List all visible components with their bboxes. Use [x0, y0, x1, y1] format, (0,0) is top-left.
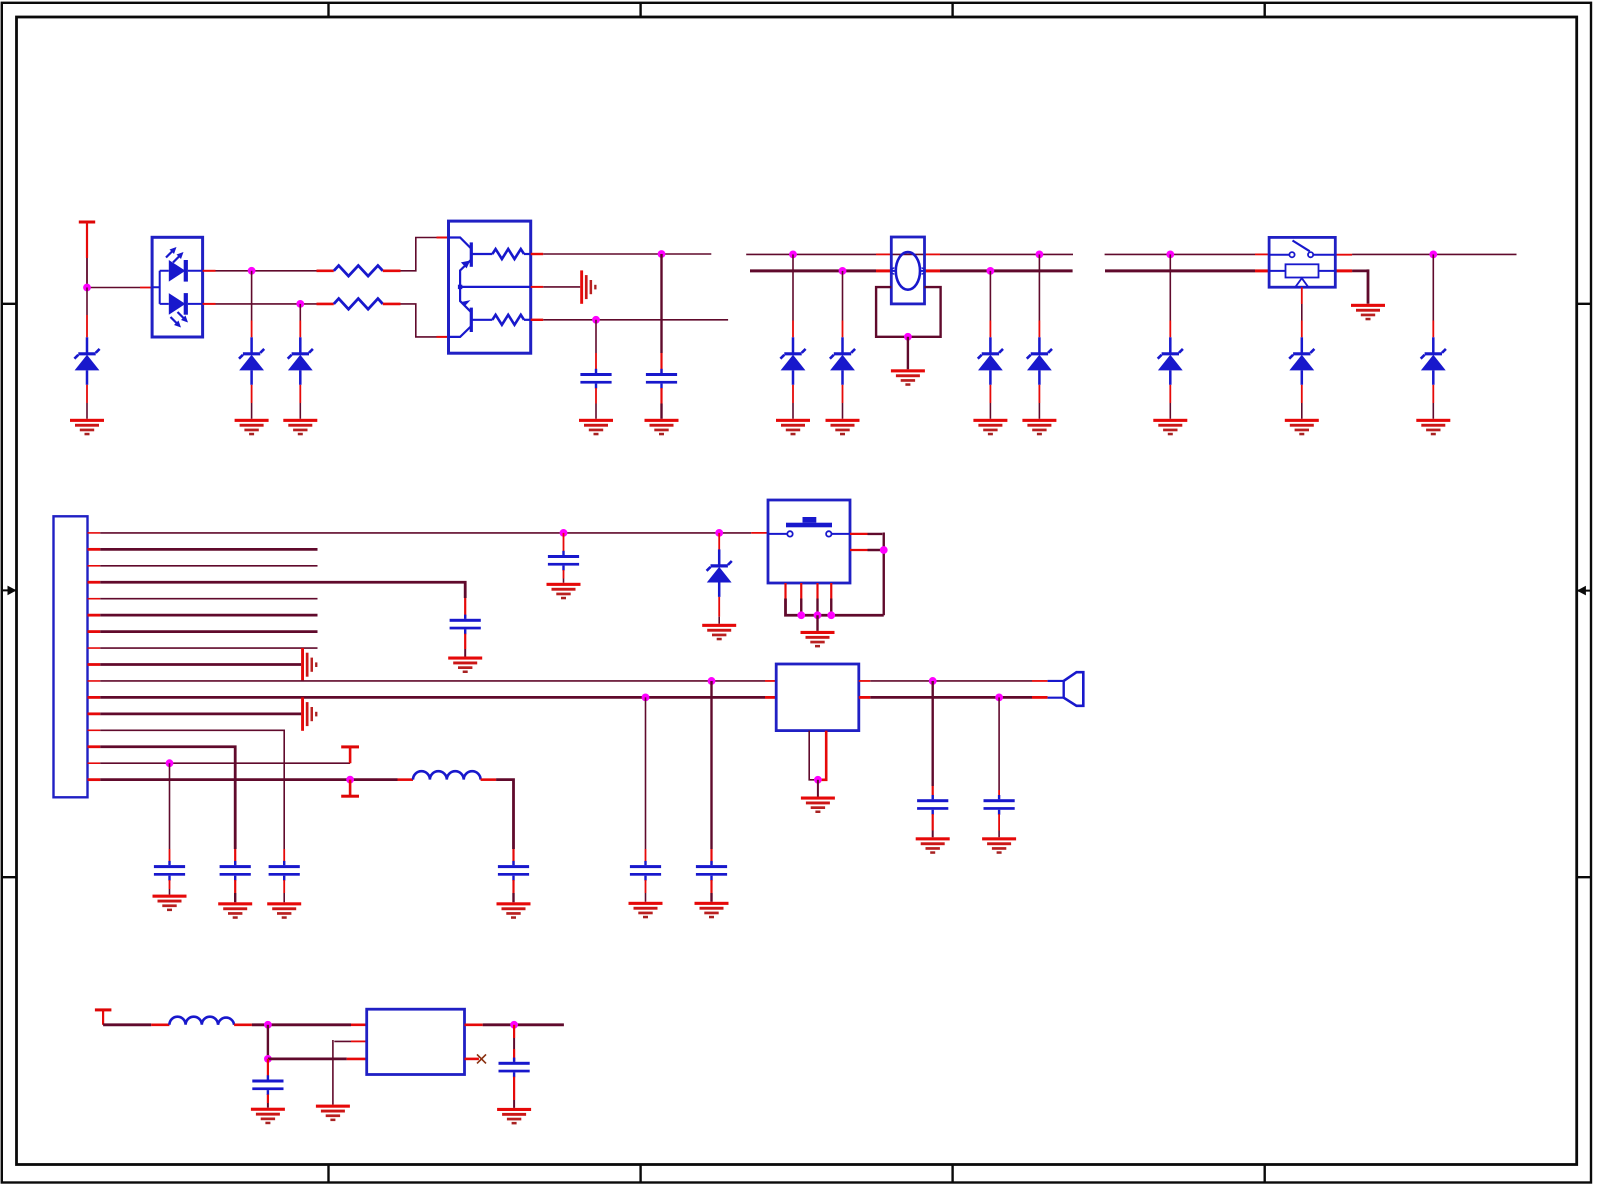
capacitor C9: [917, 681, 948, 837]
wire pin stub F1 left top: [876, 253, 891, 255]
node junction N3: [510, 1021, 518, 1029]
ground G14: [1285, 419, 1319, 436]
wire L1 left lead: [398, 778, 414, 781]
node junction M2: [715, 529, 723, 537]
wire pin stub U2 left bottom: [765, 696, 776, 699]
connector J1: [54, 516, 88, 797]
wire net LB: [216, 303, 317, 305]
wire net BUS2A right: [1352, 253, 1516, 255]
node junction B5: [904, 333, 912, 341]
wire net IN to opto: [87, 287, 152, 289]
ground G7: [891, 369, 925, 386]
wire pin stub S1 left: [1255, 269, 1269, 272]
ground G1: [70, 419, 104, 436]
ground G5: [579, 419, 613, 436]
diode D3 (TVS): [288, 304, 313, 419]
wire N1 to N2: [267, 1025, 269, 1059]
node junction M1: [560, 529, 568, 537]
wire pin stub SW1 left: [751, 532, 768, 534]
IC U3: [367, 1009, 465, 1074]
wire emitter to ground: [543, 286, 580, 288]
wire net P2 (row2): [100, 548, 317, 551]
diode D7 (TVS): [1027, 254, 1052, 418]
wire net LA: [216, 270, 317, 272]
ground G4 (rotated): [580, 270, 596, 303]
capacitor C7: [498, 849, 529, 902]
wire pin stub U2 right bottom: [859, 696, 871, 699]
wire SW1 right pin B: [850, 549, 884, 551]
wire net OUTA: [543, 253, 711, 255]
wire net P14 (row14): [100, 745, 235, 849]
node junction M9: [827, 611, 835, 619]
wire across F1: [891, 253, 924, 255]
wire loop to ground: [907, 337, 909, 370]
ground G23: [547, 583, 581, 600]
wire pin stub F1 right top: [925, 253, 941, 255]
ground G9: [826, 419, 860, 436]
wire pin stub S1 left top: [1255, 253, 1269, 255]
wire net P12 (row12): [100, 712, 301, 715]
wire net P10 (row10): [100, 680, 765, 682]
wire S1 to ground: [1352, 269, 1368, 303]
inductor L2: [169, 1017, 234, 1025]
wire J1 pin 4 stub: [88, 581, 101, 584]
ground G10: [973, 419, 1007, 436]
wire net BUS2B: [1105, 269, 1255, 272]
wire rail to ground: [816, 615, 818, 631]
ground G27: [916, 837, 950, 854]
wire J1 pin 5 stub: [88, 598, 101, 600]
power port VCC2: [341, 745, 359, 763]
wire Q1 emitter pin: [531, 286, 544, 288]
wire J1 pin 2 stub: [88, 548, 101, 551]
wire J1 pin 10 stub: [88, 680, 101, 682]
resistor R2: [317, 299, 401, 310]
wire U3 output pin: [465, 1024, 564, 1027]
wire SW1 right pin A: [850, 533, 884, 616]
diode D1 (TVS): [74, 288, 99, 419]
ground G28: [982, 837, 1016, 854]
wire J1 pin 1 stub: [88, 532, 101, 534]
wire net P1 (row1): [100, 532, 751, 534]
wire net BUS1A: [746, 253, 876, 255]
capacitor C1: [580, 320, 611, 419]
ground G32: [316, 1105, 350, 1122]
diode D5 (TVS): [830, 271, 855, 419]
wire U2 to ground: [817, 780, 819, 797]
capacitor C2: [646, 254, 677, 419]
node junction M13: [814, 776, 822, 784]
wire net BUS1A right: [940, 253, 1073, 255]
node junction B6: [1166, 251, 1174, 259]
node junction A3: [296, 300, 304, 308]
wire opto pin3: [203, 270, 216, 272]
wire J1 pin 3 stub: [88, 565, 101, 567]
node junction B3: [839, 267, 847, 275]
wire pin stub F1 right: [925, 269, 941, 272]
capacitor C4: [269, 849, 300, 902]
wire net P6 (row6): [100, 614, 317, 617]
node junction M10: [880, 546, 888, 554]
node junction B2: [1036, 251, 1044, 259]
ground G15: [1416, 419, 1450, 436]
wire net P13 (row13): [100, 730, 284, 850]
wire L2 to U3: [234, 1024, 367, 1027]
wire net P4 (row4): [100, 581, 465, 598]
wire U3 middle pin to ground: [333, 1040, 367, 1105]
IC U2: [776, 664, 859, 731]
thermal switch S1: [1269, 237, 1335, 287]
ground G21: [153, 895, 187, 912]
optocoupler U1: [152, 237, 203, 337]
left sheet arrow: [8, 586, 17, 596]
ground G8: [776, 419, 810, 436]
wire SPKA red lead: [1032, 680, 1048, 682]
wire L1 to C7: [496, 778, 513, 849]
wire net P8 (row8): [100, 647, 317, 649]
wire U2 bottom pin right: [818, 731, 826, 780]
ground G3: [283, 419, 317, 436]
wire pin stub F1 left: [876, 269, 891, 272]
power port VCC3 (down): [341, 780, 359, 798]
wire net P11 (row11): [100, 696, 765, 699]
wire VCC4 to L2: [103, 1023, 169, 1026]
ground G11: [1022, 419, 1056, 436]
node junction M3: [708, 677, 716, 685]
transistor pair Q1: [449, 221, 531, 353]
wire U3 NC pin: [465, 1058, 479, 1061]
diode D6 (TVS): [978, 271, 1003, 419]
ground G31: [251, 1108, 285, 1125]
wire J1 pin 13 stub: [88, 729, 101, 731]
capacitor C11: [630, 697, 661, 901]
wire net BUS1B: [750, 269, 876, 272]
node junction M11: [929, 677, 937, 685]
capacitor C8: [548, 533, 579, 583]
wire net P3 (row3): [100, 565, 317, 567]
wire opto pin4: [203, 303, 216, 305]
capacitor C5: [220, 849, 251, 902]
wire net OUTB: [543, 319, 728, 321]
ground G20: [218, 902, 252, 919]
wire J1 pin 9 stub: [88, 663, 101, 666]
diode D11 (TVS): [707, 533, 732, 624]
ground G29: [629, 902, 663, 919]
node junction M5: [166, 759, 174, 767]
wire net BUS1B right: [940, 269, 1073, 272]
node junction M8: [814, 611, 822, 619]
fuse F1: [891, 237, 924, 304]
node junction B7: [1429, 251, 1437, 259]
power port VCC4: [95, 1008, 112, 1024]
wire R1 to Q1: [401, 237, 449, 272]
node junction N2: [264, 1055, 272, 1063]
wire R2 to Q1: [401, 303, 449, 338]
no-connect X mark: [477, 1054, 486, 1063]
wire L1 right lead: [481, 778, 497, 781]
node junction M7: [797, 611, 805, 619]
wire SW1 pin stubs bottom: [786, 583, 832, 599]
wire net BUS2A: [1105, 253, 1255, 255]
node junction B1: [789, 251, 797, 259]
speaker LS1: [1048, 672, 1084, 706]
node junction A1: [83, 284, 91, 292]
wire net SPKB: [870, 696, 1032, 699]
wire U2 bottom pin left: [809, 731, 818, 780]
node junction N1: [264, 1021, 272, 1029]
ground G30: [695, 902, 729, 919]
ground G26: [801, 797, 835, 814]
capacitor C3: [450, 598, 481, 657]
wire net P5 (row5): [100, 598, 317, 600]
capacitor C13: [252, 1059, 283, 1108]
ground G6: [645, 419, 679, 436]
wire net SPKA: [870, 680, 1032, 682]
wire Q1 pin out top: [531, 253, 544, 255]
inductor L1: [413, 771, 481, 779]
wire net P7 (row7): [100, 630, 317, 633]
wire F1 bypass loop: [876, 287, 941, 337]
wire Q1 pin out bottom: [531, 319, 544, 321]
ground G19: [267, 902, 301, 919]
wire net P9 (row9): [100, 663, 301, 666]
ground G16: [448, 657, 482, 674]
wire pin stub U2 left top: [765, 680, 776, 682]
wire J1 pin 6 stub: [88, 614, 101, 617]
wire J1 pin 12 stub: [88, 712, 101, 715]
ground G13: [1153, 419, 1187, 436]
node junction M6: [346, 776, 354, 784]
wire J1 pin 7 stub: [88, 630, 101, 633]
node junction M12: [995, 694, 1003, 702]
node junction A4: [658, 250, 666, 258]
diode D4 (TVS): [780, 254, 805, 418]
ground G2: [235, 419, 269, 436]
diode D10 (TVS): [1421, 254, 1446, 418]
diode D2 (TVS): [239, 271, 264, 419]
wire J1 pin 16 stub: [88, 778, 101, 781]
wire J1 pin 11 stub: [88, 696, 101, 699]
wire pin stub U2 right top: [859, 680, 871, 682]
node junction B4: [987, 267, 995, 275]
power port VCC1: [79, 221, 95, 288]
wire J1 pin 8 stub: [88, 647, 101, 649]
ground G12: [1351, 304, 1385, 321]
capacitor C10: [984, 697, 1015, 837]
capacitor C12: [696, 681, 727, 902]
ground G24: [702, 624, 736, 641]
resistor R1: [317, 266, 401, 277]
wire SPKB red lead: [1032, 696, 1048, 699]
wire J1 pin 14 stub: [88, 745, 101, 748]
capacitor C6: [154, 763, 185, 894]
node junction A2: [248, 267, 256, 275]
wire net P15 (row15): [100, 762, 350, 764]
ground G33: [497, 1108, 531, 1125]
pushbutton SW1: [768, 500, 850, 583]
ground G22: [497, 902, 531, 919]
diode D9 (TVS): [1289, 287, 1314, 419]
right sheet arrow: [1577, 586, 1586, 596]
wire pin stub S1 right: [1335, 269, 1352, 272]
diode D8 (TVS): [1158, 254, 1183, 418]
node junction M4: [642, 694, 650, 702]
wire SW1 bottom rail: [784, 599, 884, 616]
wire J1 pin 15 stub: [88, 762, 101, 764]
ground G25: [801, 631, 835, 648]
wire pin stub S1 right top: [1335, 254, 1352, 256]
ground G17 (rotated): [301, 648, 317, 681]
capacitor C14: [498, 1025, 529, 1108]
node junction A5: [592, 316, 600, 324]
wire net P16 (row16): [100, 778, 397, 781]
ground G18 (rotated): [301, 697, 317, 730]
wire N2 to U3: [268, 1058, 367, 1061]
